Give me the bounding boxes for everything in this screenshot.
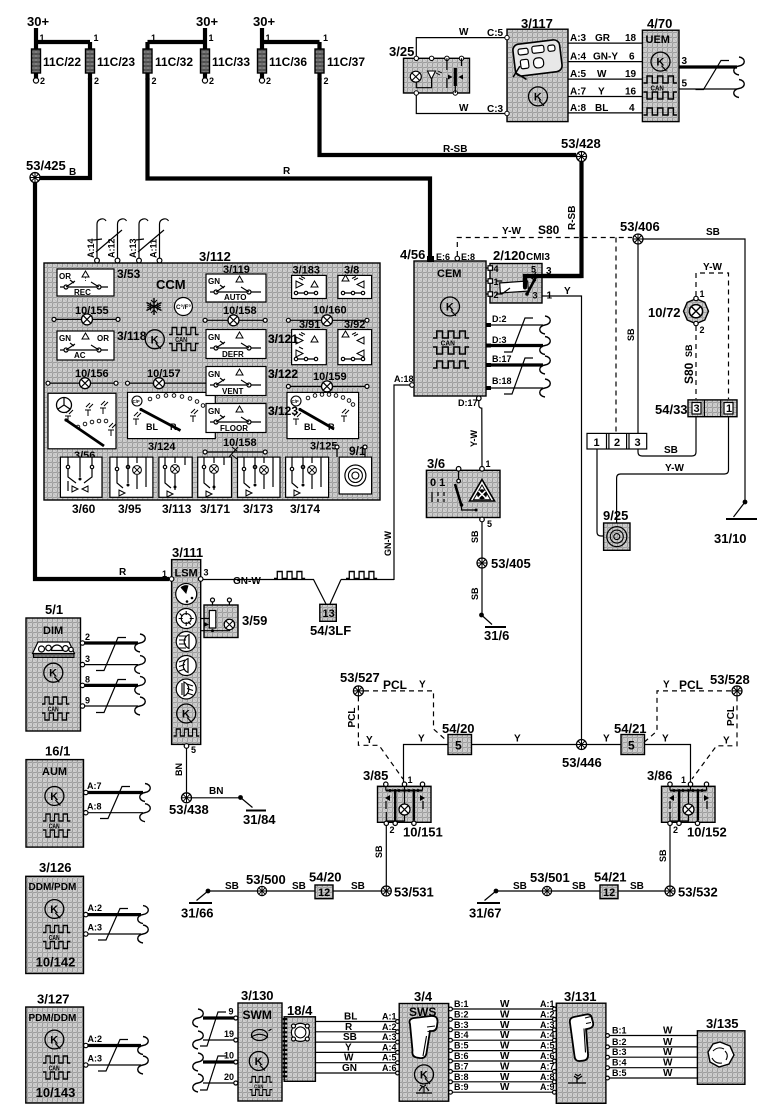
svg-text:C:3: C:3 <box>487 104 504 115</box>
svg-text:A:3: A:3 <box>570 33 587 44</box>
svg-text:DEFR: DEFR <box>222 350 244 359</box>
wire B:17 <box>486 354 550 374</box>
svg-text:54/21: 54/21 <box>594 870 627 885</box>
wire SB 54/20 to 53/531 <box>333 890 381 892</box>
svg-text:53/500: 53/500 <box>246 872 286 887</box>
svg-text:W: W <box>500 1020 510 1031</box>
fuse 11C/37 <box>315 33 365 86</box>
3/126 pin A:3 wire <box>84 923 149 944</box>
svg-text:A:18: A:18 <box>394 374 414 384</box>
splice 53/531 <box>381 886 391 896</box>
svg-text:9/25: 9/25 <box>603 508 628 523</box>
twisted pair slash B:17/B:18 <box>504 358 533 394</box>
AUM pin A:8 wire <box>84 802 151 822</box>
svg-text:OR: OR <box>97 334 109 343</box>
wire BN from LSM pin 5 to splice 53/438 <box>186 748 188 792</box>
svg-text:B:18: B:18 <box>492 376 512 386</box>
wire W 3/131 B:4 to 3/135 <box>606 1058 697 1070</box>
svg-text:16/1: 16/1 <box>45 744 70 759</box>
SWM pin 19 wire <box>193 1029 238 1049</box>
svg-text:9: 9 <box>85 696 90 706</box>
svg-text:10/158: 10/158 <box>223 305 257 317</box>
wire W SWS B:6 to 3/131 A:6 <box>449 1051 557 1063</box>
svg-text:3/171: 3/171 <box>200 502 230 516</box>
svg-text:10/160: 10/160 <box>313 305 347 317</box>
wire W to 3/117 C:3 <box>416 93 505 114</box>
thermometer C/F symbol <box>174 298 192 316</box>
wire BL 18/4 to SWS A:1 <box>315 1012 399 1024</box>
svg-text:A:5: A:5 <box>382 1053 397 1063</box>
ground 31/10 <box>714 500 757 546</box>
svg-text:6: 6 <box>629 52 635 63</box>
svg-text:18: 18 <box>625 33 637 44</box>
svg-text:3/4: 3/4 <box>414 989 433 1004</box>
relay 3/113 <box>159 457 192 516</box>
wire feed bar pair 2 <box>148 40 206 44</box>
svg-text:AUM: AUM <box>42 766 67 778</box>
svg-text:8: 8 <box>85 675 90 685</box>
svg-text:B:4: B:4 <box>454 1030 469 1040</box>
svg-text:11C/22: 11C/22 <box>43 55 81 69</box>
splice 53/438 <box>182 793 192 803</box>
svg-text:W: W <box>663 1047 673 1058</box>
svg-text:W: W <box>500 1072 510 1083</box>
fuse 11C/36 <box>258 33 308 86</box>
wire D:3 <box>486 335 550 355</box>
fuse 11C/32 <box>143 33 193 86</box>
svg-text:5: 5 <box>531 265 536 275</box>
svg-text:B:9: B:9 <box>454 1082 469 1092</box>
connector 1|2|3 (in-line) <box>587 433 647 449</box>
svg-text:Y: Y <box>418 734 425 745</box>
wire SB connector pin3 to 54/33 pin 3 <box>638 417 696 456</box>
svg-text:Y: Y <box>603 734 610 745</box>
supply 30+ (left) <box>27 14 49 42</box>
svg-text:3/6: 3/6 <box>427 456 445 471</box>
fuse 11C/22 <box>32 33 82 86</box>
splice 53/405 <box>477 558 487 568</box>
svg-text:3/8: 3/8 <box>344 265 359 277</box>
ground 31/84 <box>238 795 276 827</box>
svg-text:3: 3 <box>85 654 90 664</box>
circular connector symbol <box>291 1023 309 1041</box>
svg-text:AC: AC <box>74 351 86 360</box>
svg-text:B:6: B:6 <box>454 1051 469 1061</box>
twisted pair slash AUM <box>100 787 130 819</box>
svg-text:SB: SB <box>706 227 720 238</box>
buzzer 9/1 <box>335 444 372 494</box>
svg-text:53/501: 53/501 <box>530 870 570 885</box>
wire SB 53/500 to 54/20 <box>267 890 316 892</box>
wire R from fuse 11C/32 to CEM pin E:6 <box>148 78 431 259</box>
wire GN-W from LSM pin 3 with data symbols <box>203 580 394 605</box>
wire D:2 <box>486 314 550 334</box>
supply 30+ (middle) <box>196 14 218 42</box>
svg-text:3/131: 3/131 <box>564 989 597 1004</box>
svg-text:B:4: B:4 <box>612 1058 627 1068</box>
twisted pair slash D:2/D:3 <box>504 318 533 352</box>
svg-text:1: 1 <box>40 33 45 43</box>
svg-text:W: W <box>663 1026 673 1037</box>
svg-text:OR: OR <box>59 272 71 281</box>
svg-text:GN: GN <box>342 1063 357 1074</box>
svg-text:11C/32: 11C/32 <box>155 55 193 69</box>
svg-text:Y-W: Y-W <box>502 226 521 237</box>
wire B:18 <box>486 376 550 397</box>
comb teeth strip <box>283 1018 288 1080</box>
svg-text:53/425: 53/425 <box>26 158 66 173</box>
pin D:17 <box>458 396 481 408</box>
dashed PCL from 53/527 right branch to 54/20 <box>364 691 447 741</box>
svg-text:13: 13 <box>323 608 335 620</box>
wire SB 31/66 to 53/500 <box>208 890 258 892</box>
svg-text:A:2: A:2 <box>88 903 103 913</box>
switch 3/122 VENT <box>206 367 298 397</box>
relay 3/174 <box>286 457 329 516</box>
wire R-SB overlay into relay 2/120 <box>525 276 582 287</box>
svg-text:1: 1 <box>594 437 600 449</box>
K symbol CCM <box>145 330 164 349</box>
svg-text:3/118: 3/118 <box>117 329 147 343</box>
svg-text:SB: SB <box>630 881 644 892</box>
svg-text:S80: S80 <box>682 362 696 384</box>
splice 53/532 <box>665 886 675 896</box>
wire SB right rail to ground 31/10 <box>643 239 745 501</box>
svg-text:A:7: A:7 <box>540 1061 555 1071</box>
wire R-SB from fuse 11C/37 to splice 53/428 <box>320 78 577 155</box>
AUM pin A:7 wire <box>84 781 151 802</box>
svg-text:VENT: VENT <box>222 387 243 396</box>
svg-text:12: 12 <box>603 887 615 899</box>
connector 54/21 (12) <box>594 870 627 900</box>
twisted pair slash UEM <box>696 61 730 90</box>
svg-text:9: 9 <box>229 1007 234 1017</box>
svg-text:W: W <box>459 103 469 114</box>
svg-text:2: 2 <box>494 290 499 300</box>
svg-text:B:3: B:3 <box>454 1020 469 1030</box>
dashed Y-W from lamp 10/72 pin 1 to 54/33 pin 1 <box>696 273 729 399</box>
svg-text:A:5: A:5 <box>540 1041 555 1051</box>
svg-text:Y: Y <box>564 286 571 297</box>
wire W to 3/117 C:5 <box>416 38 505 58</box>
svg-text:A:2: A:2 <box>88 1034 103 1044</box>
svg-text:31/84: 31/84 <box>243 812 276 827</box>
svg-text:R-SB: R-SB <box>567 206 578 230</box>
svg-text:4/70: 4/70 <box>647 16 672 31</box>
wire W 3/131 B:3 to 3/135 <box>606 1047 697 1059</box>
svg-text:A:4: A:4 <box>540 1030 555 1040</box>
svg-text:Y: Y <box>662 734 669 745</box>
wire BN to ground 31/84 <box>192 797 240 799</box>
wire W SWS B:9 to 3/131 A:9 <box>449 1082 557 1094</box>
wiper arrow symbol 3/131 <box>568 1074 586 1083</box>
svg-text:W: W <box>500 1061 510 1072</box>
DIM pin 2 wire <box>80 632 145 652</box>
svg-text:AUTO: AUTO <box>224 293 247 302</box>
svg-text:DIM: DIM <box>43 625 63 637</box>
wire SB from splice down to connector pin 3 <box>637 244 639 433</box>
svg-text:FLOOR: FLOOR <box>220 424 248 433</box>
svg-text:A:3: A:3 <box>382 1032 397 1042</box>
wire Y from relay 2/120 to junction rail <box>542 296 582 739</box>
svg-text:A:4: A:4 <box>570 52 587 63</box>
svg-text:SB: SB <box>470 530 480 543</box>
wire R 18/4 to SWS A:2 <box>315 1022 399 1034</box>
svg-text:W: W <box>500 1051 510 1062</box>
svg-text:Y-W: Y-W <box>665 463 684 474</box>
switch 3/53 REC <box>57 267 141 297</box>
svg-text:53/428: 53/428 <box>561 136 601 151</box>
wire R-SB from splice 53/428 down into relay 2/120 pin 5 <box>525 162 582 288</box>
wire feed bar pair 3 <box>262 40 320 44</box>
ground 31/66 <box>181 889 214 921</box>
snowflake symbol <box>147 298 162 315</box>
LSM front fog symbol <box>176 656 196 676</box>
cluster icon <box>33 642 75 658</box>
pin E:8 <box>455 252 475 262</box>
wire pin 5 of UEM (CAN thin) <box>679 79 744 98</box>
svg-text:18/4: 18/4 <box>287 1003 313 1018</box>
indicator 3/8 <box>338 265 372 299</box>
wire W pin A:5 to UEM 19 <box>568 69 642 80</box>
LSM headlamp symbol <box>176 632 196 652</box>
lamp 10/158 <box>203 305 267 326</box>
svg-text:1: 1 <box>209 33 214 43</box>
svg-text:Y: Y <box>663 680 670 691</box>
svg-text:1: 1 <box>494 277 499 287</box>
wire W SWS B:2 to 3/131 A:2 <box>449 1009 557 1021</box>
svg-text:3/86: 3/86 <box>647 768 672 783</box>
svg-text:19: 19 <box>625 69 637 80</box>
svg-text:GN: GN <box>208 370 220 379</box>
twisted pair slash DIM 8/9 <box>96 680 126 713</box>
svg-text:GN-Y: GN-Y <box>593 52 618 63</box>
svg-text:C°/F°: C°/F° <box>176 304 191 311</box>
svg-text:5: 5 <box>191 745 196 755</box>
svg-text:W: W <box>500 1041 510 1052</box>
svg-text:SB: SB <box>470 587 480 600</box>
resistor module 3/59 <box>201 598 268 638</box>
svg-text:SWM: SWM <box>243 1008 272 1022</box>
svg-text:GN: GN <box>208 407 220 416</box>
wire feed bar pair 1 <box>36 40 90 44</box>
svg-text:2: 2 <box>700 325 705 335</box>
svg-text:R: R <box>170 422 177 432</box>
connector 54/21 (5) <box>614 721 647 755</box>
svg-text:CCM: CCM <box>156 277 186 292</box>
LSM K symbol <box>177 704 196 723</box>
indicator 3/92 <box>338 319 372 365</box>
svg-text:3/127: 3/127 <box>37 992 70 1007</box>
horn symbol <box>251 1029 272 1041</box>
svg-text:C/F: C/F <box>133 399 141 404</box>
wire W 3/131 B:2 to 3/135 <box>606 1037 697 1049</box>
svg-text:E:8: E:8 <box>461 252 475 262</box>
SWM pin 20 wire <box>193 1072 238 1092</box>
svg-text:1: 1 <box>726 403 732 415</box>
relay 3/171 <box>198 457 232 516</box>
svg-text:3/122: 3/122 <box>268 367 298 381</box>
svg-text:16: 16 <box>625 87 637 98</box>
indicator 3/91 <box>292 319 327 365</box>
svg-text:A:8: A:8 <box>570 103 587 114</box>
svg-text:1: 1 <box>94 33 99 43</box>
svg-text:PCL: PCL <box>726 706 737 726</box>
wire SB 3/85 pin2 to splice 53/531 <box>385 826 387 887</box>
switch 3/121 DEFR <box>206 330 298 360</box>
stalk icon SWS <box>410 1016 438 1058</box>
dashed SB S80 from lamp 10/72 pin 2 to 54/33 pin 3 <box>695 326 697 399</box>
3/127 pin A:3 wire <box>84 1054 149 1075</box>
svg-text:A:7: A:7 <box>87 781 102 791</box>
wire Y-W from CEM D:17 to hazard 3/6 pin 1 <box>479 401 482 468</box>
svg-text:5: 5 <box>487 519 492 529</box>
wire W SWS B:3 to 3/131 A:3 <box>449 1020 557 1032</box>
svg-text:A:8: A:8 <box>540 1072 555 1082</box>
svg-text:B:5: B:5 <box>454 1041 469 1051</box>
svg-text:1: 1 <box>266 33 271 43</box>
svg-text:20: 20 <box>224 1072 234 1082</box>
svg-text:10/155: 10/155 <box>75 305 109 317</box>
antenna amplifier 9/25 <box>603 508 630 550</box>
svg-text:31/6: 31/6 <box>484 628 509 643</box>
LSM data symbol <box>174 729 200 736</box>
connector 54/20 (12) <box>309 870 342 900</box>
svg-text:1: 1 <box>151 33 156 43</box>
pin A:11 <box>149 219 169 263</box>
fuse 11C/23 <box>86 33 136 86</box>
dashed PCL from 53/528 left branch to 54/21 <box>645 691 731 742</box>
svg-text:3/124: 3/124 <box>148 441 176 453</box>
svg-text:53/438: 53/438 <box>169 802 209 817</box>
SWM pin 10 wire <box>193 1051 238 1072</box>
svg-text:SB: SB <box>513 881 527 892</box>
svg-text:SB: SB <box>572 881 586 892</box>
svg-text:5/1: 5/1 <box>45 602 63 617</box>
svg-text:10/158: 10/158 <box>223 437 257 449</box>
svg-text:W: W <box>500 1009 510 1020</box>
svg-text:PCL: PCL <box>347 708 358 728</box>
svg-text:10/157: 10/157 <box>147 368 181 380</box>
svg-text:PDM/DDM: PDM/DDM <box>29 1013 77 1024</box>
svg-text:3/126: 3/126 <box>39 860 72 875</box>
wire connector pin1 to antenna 9/25 <box>597 449 604 536</box>
wire SB to ground 31/6 <box>481 569 483 616</box>
svg-text:4: 4 <box>629 103 635 114</box>
svg-text:B:5: B:5 <box>612 1068 627 1078</box>
wire GN-Y pin A:4 to UEM 6 <box>568 52 642 63</box>
svg-text:BL: BL <box>595 103 608 114</box>
svg-text:3/135: 3/135 <box>706 1016 739 1031</box>
svg-text:54/20: 54/20 <box>442 721 475 736</box>
svg-text:12: 12 <box>318 887 330 899</box>
relay 3/173 <box>238 457 281 516</box>
svg-text:3/183: 3/183 <box>293 265 321 277</box>
ground 31/67 <box>469 889 502 921</box>
svg-text:D:2: D:2 <box>492 314 507 324</box>
svg-text:54/21: 54/21 <box>614 721 647 736</box>
svg-text:A:6: A:6 <box>382 1063 397 1073</box>
dashed PCL from 53/528 down branch to 3/86 pin1 <box>692 696 737 779</box>
svg-text:A:9: A:9 <box>540 1082 555 1092</box>
svg-text:2: 2 <box>266 76 271 86</box>
svg-text:E:6: E:6 <box>436 252 450 262</box>
svg-text:R: R <box>328 422 335 432</box>
svg-text:B:8: B:8 <box>454 1072 469 1082</box>
fan switch 3/56 <box>48 393 116 462</box>
wire Y row: 3/85 pin1, 54/20, 53/446, 54/21, 3/86 pin1 <box>404 745 449 783</box>
svg-text:W: W <box>597 69 607 80</box>
svg-text:W: W <box>500 1082 510 1093</box>
svg-text:GN: GN <box>208 277 220 286</box>
svg-text:R: R <box>283 166 291 177</box>
svg-text:B:2: B:2 <box>454 1009 469 1019</box>
wire BL pin A:8 to UEM 4 <box>568 103 642 114</box>
svg-text:Y: Y <box>419 680 426 691</box>
svg-text:3/111: 3/111 <box>172 545 203 560</box>
relay 3/95 <box>110 457 153 516</box>
svg-text:A:6: A:6 <box>540 1051 555 1061</box>
svg-text:54/33: 54/33 <box>655 402 688 417</box>
svg-text:10/143: 10/143 <box>36 1085 76 1100</box>
pin C:5 <box>505 35 509 39</box>
svg-text:3: 3 <box>546 266 552 277</box>
svg-text:A:2: A:2 <box>540 1009 555 1019</box>
dashed S80 net from pin E:8 <box>457 238 632 257</box>
svg-text:GR: GR <box>595 33 611 44</box>
dashed PCL from 53/527 down branch to 3/85 pin1 <box>358 696 403 779</box>
svg-text:A:2: A:2 <box>382 1022 397 1032</box>
relay coil 2/120 <box>496 281 528 294</box>
switch 3/118 AC <box>57 329 147 360</box>
twisted pair slash DIM 2/3 <box>96 638 126 671</box>
svg-text:C:5: C:5 <box>487 28 504 39</box>
CAN symbol CCM <box>169 328 199 351</box>
svg-text:SB: SB <box>351 881 365 892</box>
svg-text:1: 1 <box>700 289 705 299</box>
wire SB 3/86 pin2 to splice 53/532 <box>669 826 671 887</box>
svg-text:3/123: 3/123 <box>268 404 298 418</box>
connector 54/20 (5) <box>442 721 475 755</box>
wire W SWS B:7 to 3/131 A:7 <box>449 1061 557 1073</box>
svg-text:1: 1 <box>681 775 686 785</box>
svg-text:2/120: 2/120 <box>493 248 526 263</box>
svg-text:10/72: 10/72 <box>648 305 681 320</box>
connector 54/33 <box>655 400 737 417</box>
svg-text:B:3: B:3 <box>612 1047 627 1057</box>
LSM rotary knob symbol <box>176 584 197 605</box>
wire SB 54/21 to 53/532 <box>618 890 665 892</box>
fuse 11C/33 <box>201 33 251 86</box>
wire W 18/4 to SWS A:5 <box>315 1053 399 1065</box>
ground 31/6 <box>479 613 509 643</box>
pin A:12 <box>107 219 127 263</box>
svg-text:3/125: 3/125 <box>310 441 338 453</box>
pin A:13 <box>128 219 148 263</box>
pin 4 <box>486 264 499 274</box>
svg-text:BL: BL <box>146 422 158 432</box>
svg-text:4: 4 <box>494 264 499 274</box>
svg-text:3/173: 3/173 <box>243 502 273 516</box>
svg-text:W: W <box>500 1030 510 1041</box>
dashed S80 branch down to connector 53/55 pin 2 <box>615 238 617 434</box>
svg-text:2: 2 <box>390 825 395 835</box>
svg-text:3/53: 3/53 <box>117 267 141 281</box>
svg-text:B:1: B:1 <box>454 999 469 1009</box>
svg-text:REC: REC <box>74 288 91 297</box>
svg-text:3: 3 <box>533 291 538 301</box>
twisted pair slash SWM 9/19 <box>200 1012 226 1046</box>
